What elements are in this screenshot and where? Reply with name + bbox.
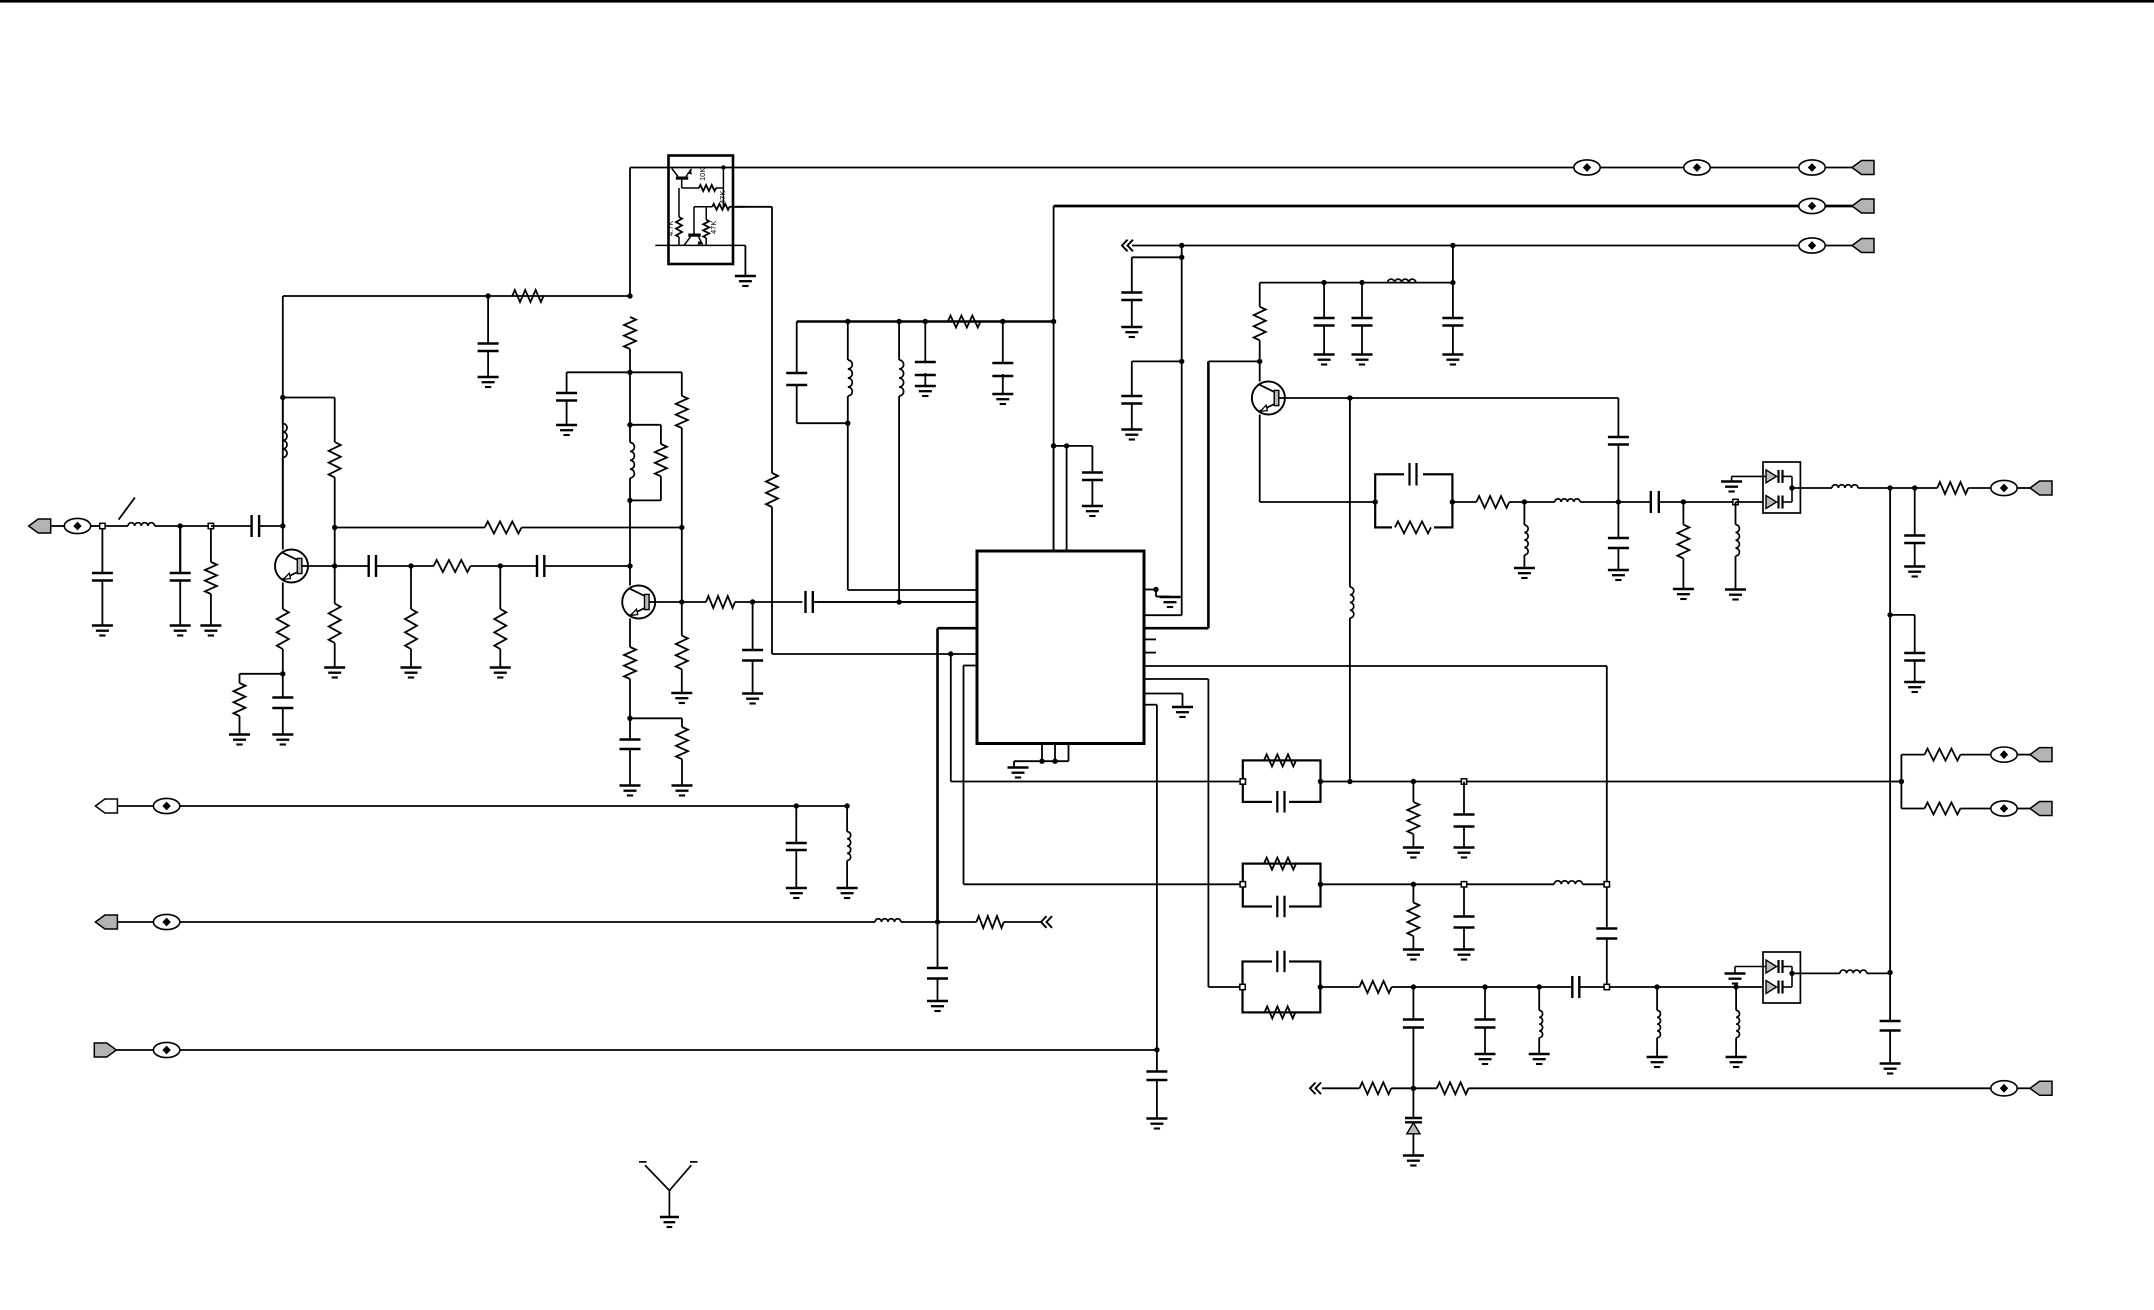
junction x=1182 y=257 [1179,255,1184,260]
wire C31 lead [1091,446,1093,473]
wire U2 Q5 base drop [693,207,695,234]
wire R25 top [1682,502,1684,525]
wire R15 lead [681,602,683,636]
ground below L11 [1725,588,1746,591]
testpoint TP5 chevron rail [1799,238,1825,253]
connector P6 [2030,802,2052,816]
capacitor C28 [1650,491,1652,513]
diode D1b [1766,496,1777,509]
wire x=950.8 corner to row1 [951,781,1243,783]
wire C31 to gnd [1091,480,1093,506]
wire IC left pin y=665.5 [964,665,978,667]
wire U2 ground drop [744,245,746,275]
wire Q3 base row [1285,397,1619,399]
junction x=1524 on row [1522,499,1527,504]
wire V2 drop at x=1053.6 [1053,206,1055,551]
connector P3 chevron rail [1852,239,1874,253]
wire U2 Q4 base to R17 [682,187,699,189]
resistor R7 [405,609,417,649]
junction tank D right [1318,984,1323,989]
junction T1 collector node [280,523,285,528]
wire R14 to node [735,601,753,603]
wire C7 lead [282,674,284,698]
resistor R18 47K in U2 [712,204,729,210]
ground below C20 [1121,326,1142,329]
wire branch to C20 [1132,256,1182,258]
ground below C36 [1454,948,1475,951]
tank B outline [1243,760,1321,802]
wire IC bottom pin2 [1054,744,1056,762]
capacitor C20 [1121,291,1142,293]
ground below R7 [401,666,422,669]
wire TP6 to P4 [2017,487,2030,489]
junction Q2 base node [679,599,684,604]
wire L15 to gnd [1538,1038,1540,1054]
wire U2 R19 top [678,188,680,217]
wire x=963.5 vertical [963,666,965,885]
ground below C17 [1146,1117,1167,1120]
wire C6 to T2 collector rail [544,565,630,567]
ground below L15 [1529,1053,1550,1056]
wire R25 to gnd [1682,559,1684,589]
junction Q1 emitter node [280,671,285,676]
ground below C22 [1314,353,1335,356]
wire D2 top input [1735,966,1766,968]
diode D2b [1766,981,1777,994]
resistor R35 in tank D [1265,1006,1296,1018]
capacitor C15 [786,842,807,844]
junction supply row x=1324 [1321,280,1326,285]
junction y=654 x=950.8 [948,651,953,656]
wire row1 a [1321,781,1891,783]
resistor R26 [1937,482,1968,494]
junction row1 x=1350 [1347,779,1352,784]
capacitor C7 [272,696,293,698]
capacitor C13 [915,361,936,363]
wire R7 to gnd [410,649,412,667]
wire C8 to gnd [566,401,568,425]
testpoint TP10 [153,1042,179,1057]
junction row3 x=1413 [1411,984,1416,989]
resistor R2 [512,290,543,302]
wire L10 to gnd [1523,555,1525,568]
wire C16 lead [937,922,939,968]
wire D3 bottom lead [1412,1134,1414,1155]
wire LC loop bottom [630,499,661,501]
ground below IC [1008,766,1029,769]
junction row3 x=1657 [1654,984,1659,989]
transistor Q4 in U2 [676,177,688,180]
wire D1 gnd stem [1731,476,1733,481]
testpoint TP7 [64,518,90,533]
capacitor C5 [368,555,370,577]
wire pin drop to gnd [1182,694,1184,707]
junction bus x=899 [896,319,901,324]
wire L6 top lead [846,806,848,832]
junction tank C right [1318,882,1323,887]
ground below C3 [170,624,191,627]
wire IC right pin y=589.5 [1144,589,1156,591]
wire R10 lead [239,674,241,683]
diode D2a [1766,960,1777,973]
wire C5 to R5 [376,565,434,567]
wire branch to R12 [630,371,682,373]
wire x=334.7 mid segment [334,477,336,566]
wire D2a out [1783,966,1793,968]
connector J4 [94,1043,116,1057]
wire R15 to gnd [681,669,683,692]
wire C24 bottom [1452,326,1454,355]
transistor Q5 in U2 [688,234,700,237]
resistor R31 [1925,749,1961,761]
ground below C34 [1454,846,1475,849]
capacitor C39 [1403,1018,1424,1020]
capacitor C24 [1442,317,1463,319]
wire x=772 vertical drop [771,207,773,473]
junction row3 x=1485 [1482,984,1487,989]
junction x=1890 y=615 [1887,612,1892,617]
resistor R20 47K in U2 [703,220,709,238]
inductor L9 [1555,499,1580,502]
wire pin step down [1155,590,1157,597]
junction bus x=1002.8 [1000,319,1005,324]
inductor L6 [847,832,851,861]
wire R24 to L9 [1509,501,1555,503]
junction row3 x=1736 [1733,984,1738,989]
wire IC bottom pin1 [1041,744,1043,762]
junction x=283 y=397.5 [280,395,285,400]
wire IC right pin y=666 [1144,665,1607,667]
junction base row x=500 [498,563,503,568]
ground below L16 [1647,1056,1668,1059]
wire L15 lead [1538,987,1540,1010]
wire C10 lead [752,602,754,650]
testpoint TP3 on top rail [1799,160,1825,175]
wire LC loop right bottom [660,476,662,500]
capacitor C31 [1082,471,1103,473]
wire C7 to gnd [282,708,284,734]
ground below pin y=693 [1172,706,1193,709]
wire J2 to TP8 [117,805,153,807]
wire C22 lead [1323,283,1325,318]
wire L16 to gnd [1656,1038,1658,1057]
ground below R1 [200,624,221,627]
wire TP7 to node [91,525,101,527]
wire R8 lead [499,566,501,609]
wire bottom row c [1469,1087,1992,1089]
wire IC right pin y=628 thick [1144,627,1208,630]
wire IC right pin y=704.7 [1144,704,1157,706]
ground below R10 [229,733,250,736]
wire R8 to gnd [499,649,501,667]
junction bus x=925 [923,319,928,324]
wire C13 lead [924,322,926,363]
wire L16 lead [1656,987,1658,1010]
resistor R25 [1677,525,1689,559]
wire tank B top [629,372,631,425]
wire L9 to x=1618 [1580,501,1618,503]
inductor L13 [875,919,901,922]
pin marker row2 end [1604,882,1609,887]
wire IC top pin2 [1066,446,1068,551]
junction row921 x=937.5 [935,919,940,924]
wire IC right pin y=615 [1144,614,1182,616]
wire C8 lead [566,372,568,393]
testpoint TP9 [153,914,179,929]
wire U2 bottom rail [655,244,745,246]
wire D2b out [1783,986,1793,988]
ground below C30 [1904,681,1925,684]
wire IC left pin y=590 [848,589,977,591]
wire C3 lead [179,526,181,573]
wire J4 to TP10 [116,1049,153,1051]
wire C16 to gnd [937,979,939,1001]
wire L1 to node2 [155,525,181,527]
wire L5 top lead [898,322,900,361]
wire L4 top lead [847,322,849,361]
wire supply bus [797,320,1054,322]
resistor R3 [329,442,341,477]
wire C10 to gnd [752,661,754,694]
wire x=1890 vertical b [1889,615,1891,973]
wire R32 to TP12 [1960,808,1991,810]
wire R12 to y=527.5 [681,428,683,528]
tank C outline [1243,864,1321,907]
junction top pin2 [1064,443,1069,448]
wire C15 to gnd [795,850,797,888]
wire C17 to gnd [1156,1080,1158,1118]
ground below U2 [735,275,756,278]
connector P2 V2 rail [1852,199,1874,213]
wire C21 top lead [1131,361,1133,396]
junction base row x=411 [408,563,413,568]
wire fork top row [1901,754,1924,756]
resistor R38 [1437,1082,1469,1094]
junction y=296 x=488 [485,293,490,298]
wire node to R28 [938,921,977,923]
wire bottom pins rail [1014,760,1069,762]
wire L11 top [1735,502,1737,525]
wire C40 to gnd [1484,1028,1486,1054]
wire Q1 emitter [282,583,284,610]
capacitor C22 [1314,317,1335,319]
wire L3 bottom lead [629,478,631,500]
capacitor C33 in tank B [1272,795,1289,808]
capacitor C40 [1475,1018,1496,1020]
wire R28 to chevron [1004,921,1042,923]
inductor L3 [630,443,634,479]
wire pin step right [1156,596,1170,598]
connector P1 top rail [1852,161,1874,175]
wire Q3 emitter [1259,415,1261,503]
wire C25 to tank row [1617,445,1619,503]
capacitor C27 [1608,537,1629,539]
junction LC tank bottom [627,498,632,503]
pin marker row2 x=1464 [1461,882,1466,887]
wire C24 lead [1452,283,1454,318]
ground below C11 [620,784,641,787]
ground at IC right pin [1160,596,1181,599]
wire x=1618 between caps [1617,502,1619,538]
resistor R23 zigzag [1395,521,1431,533]
resistor R11 [624,317,636,349]
wire x=1607 vertical b [1606,939,1608,987]
junction chevron rail x=1452.9 [1450,243,1455,248]
wire tank row to C28 [1618,501,1650,503]
ground below C15 [786,887,807,890]
tank D outline [1243,962,1321,1013]
wire R7 lead [410,566,412,609]
junction LC tank top [627,422,632,427]
inductor L2 [283,424,287,458]
wire J3 to TP9 [117,921,153,923]
wire R11 to node [629,349,631,372]
resistor R4 [485,522,522,534]
ground below C29 [1904,565,1925,568]
inductor L8 [1350,587,1354,618]
wire row2 a [1321,883,1555,885]
testpoint TP8 [153,798,179,813]
wire top rail corner drop at x=630 [629,168,631,297]
capacitor C36 [1454,915,1475,917]
wire C40 lead [1484,987,1486,1020]
connector P4 [2030,481,2052,495]
wire x=1208 corner to tank C [1208,986,1242,988]
junction x=847.8 y=423.2 [845,421,850,426]
offpage chevron bottom row [1310,1083,1316,1095]
wire x=963.5 corner to row2 [964,883,1243,885]
wire L6 to gnd [846,861,848,888]
wire R12 lead [681,372,683,396]
resistor R32 [1925,803,1961,815]
junction row1 end [1899,779,1904,784]
wire D1 output [1792,487,1832,489]
wire C39 lead [1412,987,1414,1020]
wire R16b lead [681,718,683,727]
connector J3 [95,915,117,929]
resistor R23 in tank A [1392,521,1434,534]
ground below C24 [1442,353,1463,356]
pin marker input node [100,523,105,528]
wire corner to L4 node [797,422,848,424]
resistor R12 [676,396,688,428]
wire x=1182 vertical [1181,246,1183,616]
capacitor C2 [92,572,113,574]
junction supply row x=1362 [1359,280,1364,285]
inductor L14 [1554,881,1582,885]
capacitor C26 in tank A [1404,468,1423,481]
wire Q3 emitter to tank1 [1260,501,1376,503]
junction D1 output [1789,485,1794,490]
junction x=1683 row [1681,499,1686,504]
wire D3 top lead [1412,1088,1414,1118]
wire C23 bottom [1361,326,1363,355]
wire node3 to C1 [211,525,252,527]
junction row2 x=1413 [1411,882,1416,887]
resistor R28 [976,916,1003,928]
ground below R8 [490,666,511,669]
wire x=682 to base node [681,528,683,603]
wire T3 collector [1259,361,1261,381]
testpoint TP4 on V2 rail [1799,198,1825,213]
wire C17 lead [1156,1050,1158,1072]
ground below C21 [1121,428,1142,431]
wire C11 to gnd [629,749,631,785]
wire IC left pin y=602 [817,601,977,603]
wire C28 to node [1659,501,1684,503]
inductor L5 [899,360,904,396]
ground below C16 [927,1000,948,1003]
wire Q2 collector [629,566,631,586]
wire emitter branch left [240,673,283,675]
junction C29 node [1912,485,1917,490]
junction Q3 base x=1350 [1347,395,1352,400]
capacitor C17 [1146,1070,1167,1072]
wire row y=806 [180,805,847,807]
resistor R22 [1254,307,1266,341]
wire bus corner down [796,322,798,374]
pin marker tank B left [1240,779,1245,784]
wire x=937.5 thick vertical [936,628,939,922]
testpoint TP12 [1991,801,2017,816]
connector P7 [2030,1081,2052,1095]
wire D1 rail [1791,476,1793,502]
junction x=1618 on row [1616,499,1621,504]
wire L4 bottom [847,396,849,423]
wire top rail V1 net [630,167,1852,169]
wire LC loop top [630,424,661,426]
ground below D3 [1403,1154,1424,1157]
wire C36 to gnd [1463,928,1465,950]
junction T3 collector node [1257,359,1262,364]
wire node to C9 [753,601,803,603]
junction row1 x=1413 [1411,779,1416,784]
wire bottom row a [1322,1087,1360,1089]
wire TP13 to P7 [2017,1087,2030,1089]
wire C29 lead [1914,488,1916,536]
capacitor C16 [927,967,948,969]
wire row y=1050 [180,1049,1157,1051]
ground below C31 [1082,505,1103,508]
capacitor C34 [1454,813,1475,815]
wire R10 to gnd [239,716,241,734]
wire J1 to TP7 [51,525,64,527]
wire C27 to gnd [1617,548,1619,570]
ground below C10 [742,692,763,695]
wire C29 to gnd [1914,543,1916,566]
wire C12 to corner [796,385,798,423]
wire U2 R20 bottom [705,238,707,245]
capacitor C12 [786,372,807,374]
connector P5 [2030,748,2052,762]
wire U2 R20 top [705,207,707,220]
wire x=847.8 to IC pin [847,423,849,590]
wire C14 to gnd [1002,374,1004,394]
wire Q2 base to R14 [655,601,706,603]
wire L13 to node [901,921,938,923]
wire C2 to gnd [101,581,103,626]
wire thick V2 rail [1054,205,1874,208]
wire x=1524 down [1523,502,1525,525]
wire node to x=1208 corner [1208,360,1259,362]
inductor L7 [1388,279,1416,283]
junction tank A right [1450,499,1455,504]
detector box D2 outline [1763,952,1800,1003]
wire fork vertical [1900,755,1902,809]
capacitor C10 [742,649,763,651]
ground below L17 [1726,1056,1747,1059]
ground below R16b [672,784,693,787]
